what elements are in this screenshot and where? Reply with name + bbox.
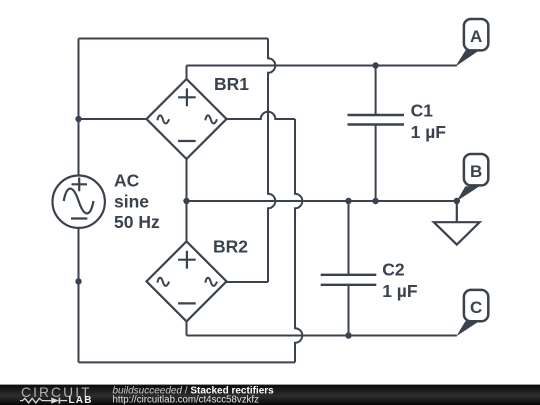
svg-text:http://circuitlab.com/ct4scc58: http://circuitlab.com/ct4scc58vzkfz xyxy=(113,395,260,405)
bridge rectifier BR2 xyxy=(147,241,227,321)
junction: net B rail / C2 top xyxy=(345,198,351,204)
wire: left rail, AC source + terminal up xyxy=(78,39,80,175)
junction: net C rail / C2 bottom xyxy=(345,332,351,338)
svg-text:C2: C2 xyxy=(382,260,405,280)
svg-text:B: B xyxy=(470,162,482,181)
terminal B xyxy=(457,154,489,201)
bridge rectifier BR1 xyxy=(147,79,227,159)
junction: net B vertical / net B rail xyxy=(183,198,189,204)
wire: BR1 AC left pin to left rail xyxy=(79,118,147,120)
junction: net B rail / terminal B / ground xyxy=(454,198,460,204)
wire: BR2 - pin down xyxy=(186,321,188,335)
svg-text:LAB: LAB xyxy=(69,395,93,405)
wire: net A rail to terminal A xyxy=(187,65,457,67)
wire: vertical of net AC-, hops over net B rail and net C rail xyxy=(295,119,302,362)
svg-text:A: A xyxy=(470,27,482,46)
wire: right vertical of net AC+, hops over net A rail and net B rail xyxy=(268,39,275,283)
label: C1 value 1 uF xyxy=(411,100,447,142)
svg-text:sine: sine xyxy=(114,191,149,211)
junction: net A rail / C1 top xyxy=(372,62,378,68)
logo: resistor zigzag xyxy=(20,398,51,403)
logo: diode xyxy=(51,398,59,404)
svg-text:1 µF: 1 µF xyxy=(382,281,418,301)
junction: left rail / BR2 AC left xyxy=(75,278,81,284)
svg-text:BR1: BR1 xyxy=(214,74,249,94)
junction: net B rail / C1 bottom xyxy=(372,198,378,204)
AC voltage source V1 (sine 50 Hz) xyxy=(52,176,104,228)
svg-text:1 µF: 1 µF xyxy=(411,122,447,142)
svg-text:BR2: BR2 xyxy=(213,236,248,256)
wire: top rail xyxy=(79,38,269,40)
wire: AC source - terminal down xyxy=(78,229,80,363)
wire: into BR2 AC right pin xyxy=(227,281,269,283)
label: C2 value 1 uF xyxy=(382,260,418,302)
label: AC sine 50 Hz xyxy=(114,171,160,233)
wire: bottom rail xyxy=(79,361,296,363)
terminal A xyxy=(455,19,488,67)
svg-text:C: C xyxy=(470,298,482,317)
wire: net B rail xyxy=(187,200,457,202)
capacitor C1 xyxy=(348,66,405,202)
wire: net C rail to terminal C xyxy=(187,335,457,337)
terminal C xyxy=(456,290,488,336)
ground symbol on net B xyxy=(434,201,480,245)
wire: BR1 AC right pin, hops over net AC+ vertical xyxy=(227,112,296,119)
wire: BR1 + pin up xyxy=(186,66,188,80)
svg-text:AC: AC xyxy=(114,171,140,191)
wire: BR1 - to BR2 + (net B vertical) xyxy=(186,159,188,241)
svg-text:C1: C1 xyxy=(411,100,434,120)
capacitor C2 xyxy=(321,201,377,336)
svg-text:50 Hz: 50 Hz xyxy=(114,212,160,232)
junction: left rail / BR1 AC left xyxy=(75,116,81,122)
footer bar xyxy=(0,385,540,405)
